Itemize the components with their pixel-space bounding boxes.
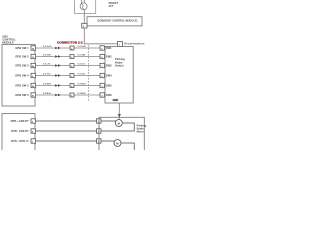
svg-text:SW3: SW3 bbox=[106, 64, 112, 68]
pin 7 (parking brake switch SW3) bbox=[100, 63, 105, 67]
svg-text:EPB SW 6: EPB SW 6 bbox=[15, 93, 29, 97]
BCM (body control module) box bbox=[87, 17, 142, 26]
pin 8 (ABS control module, MTR - EPB RT) bbox=[31, 129, 36, 133]
svg-text:EPB SW 1: EPB SW 1 bbox=[15, 46, 29, 50]
svg-text:SW5: SW5 bbox=[106, 84, 112, 88]
pin 1 (parking brake switch, illumination) bbox=[118, 42, 123, 47]
svg-text:MTR + EPB LT: MTR + EPB LT bbox=[11, 139, 29, 143]
svg-text:0.3 G/B: 0.3 G/B bbox=[43, 55, 51, 57]
in-line connector symbol bbox=[55, 84, 60, 87]
smart junction box bbox=[75, 0, 96, 13]
svg-text:BCM(BODY CONTROL MODULE): BCM(BODY CONTROL MODULE) bbox=[98, 18, 138, 22]
pin (BCM left edge) bbox=[82, 23, 87, 28]
svg-text:MTR + EPB RT: MTR + EPB RT bbox=[11, 119, 30, 123]
pin 4 (parking brake switch SW6) bbox=[100, 93, 105, 97]
arrowhead on ground wire bbox=[118, 114, 121, 117]
svg-text:EPB SW 4: EPB SW 4 bbox=[15, 73, 29, 77]
svg-text:EPB SW 5: EPB SW 5 bbox=[15, 83, 29, 87]
wire MTR + EPB RT: ABS module to parking brake motor bbox=[36, 120, 97, 122]
pin 2 (parking brake motor) bbox=[97, 119, 102, 123]
joint connector box bbox=[70, 46, 74, 50]
wire MTR + EPB LT: ABS module to parking brake motor bbox=[36, 140, 97, 142]
node MTR + EPB LT row bbox=[11, 139, 101, 144]
in-line connector symbol bbox=[55, 64, 60, 67]
svg-text:0.3 Br/O: 0.3 Br/O bbox=[43, 93, 52, 95]
connector 2-2 boundary line (dashed) bbox=[88, 45, 90, 101]
wire EPB SW 1: ABS module to parking brake switch bbox=[36, 47, 101, 49]
svg-text:0.3 W/O: 0.3 W/O bbox=[78, 84, 86, 86]
wire EPB SW 2: ABS module to parking brake switch bbox=[36, 56, 101, 58]
svg-text:MODULE: MODULE bbox=[2, 40, 14, 44]
wire: motor RH feed bbox=[101, 120, 116, 122]
pin 41 (ABS control module, EPB SW 6) bbox=[31, 93, 36, 97]
svg-text:GND: GND bbox=[113, 98, 119, 102]
pin 25 (ABS control module, EPB SW 5) bbox=[31, 83, 36, 87]
in-line connector symbol bbox=[55, 94, 60, 97]
wire EPB SW 5: ABS module to parking brake switch bbox=[36, 85, 101, 87]
pin 5 (parking brake switch SW1) bbox=[100, 46, 105, 50]
svg-text:MTR - EPB RT: MTR - EPB RT bbox=[11, 129, 29, 133]
svg-text:CONNECTOR 2-2: CONNECTOR 2-2 bbox=[57, 40, 83, 44]
node EPB SW 3 row bbox=[15, 63, 112, 68]
node MTR + EPB RT row bbox=[11, 119, 101, 124]
svg-text:Motor: Motor bbox=[137, 130, 144, 134]
joint connector box bbox=[70, 84, 74, 88]
wire EPB SW 4: ABS module to parking brake switch bbox=[36, 75, 101, 77]
pin 3 (ABS control module, MTR + EPB LT) bbox=[31, 139, 36, 143]
joint connector box bbox=[70, 55, 74, 59]
in-line connector symbol bbox=[55, 47, 60, 50]
wire: switch ground to parking brake motor bbox=[118, 103, 120, 120]
pin 9 (ABS control module, EPB SW 4) bbox=[31, 73, 36, 77]
pin 42 (ABS control module, EPB SW 3) bbox=[31, 63, 36, 67]
svg-text:SW4: SW4 bbox=[106, 74, 112, 78]
node EPB SW 6 row bbox=[15, 93, 112, 98]
svg-text:0.3 Y/O: 0.3 Y/O bbox=[78, 74, 86, 76]
pin 4 (parking brake motor) bbox=[97, 129, 102, 133]
joint connector box bbox=[70, 64, 74, 68]
pin 26 (ABS control module, EPB SW 1) bbox=[31, 46, 36, 50]
svg-text:EPB SW 2: EPB SW 2 bbox=[15, 54, 29, 58]
motor M (EPB RH) bbox=[115, 120, 122, 127]
svg-text:0.3 Gr/O: 0.3 Gr/O bbox=[43, 46, 52, 48]
wire: motor LH return loop bbox=[121, 143, 134, 151]
pin 6 (parking brake switch SW2) bbox=[100, 54, 105, 58]
pin 2 (parking brake switch SW4) bbox=[100, 73, 105, 77]
svg-text:0.3 Y/O: 0.3 Y/O bbox=[43, 74, 51, 76]
svg-text:Switch: Switch bbox=[115, 64, 124, 68]
svg-text:0.3 Gr/O: 0.3 Gr/O bbox=[78, 46, 87, 48]
wire EPB SW 6: ABS module to parking brake switch bbox=[36, 94, 101, 96]
wire: fuse output down through smart j/b bbox=[83, 9, 85, 23]
motor M (EPB LH) bbox=[114, 140, 121, 147]
in-line connector symbol bbox=[55, 74, 60, 77]
svg-text:SW6: SW6 bbox=[106, 93, 112, 97]
wire: motor LH feed bbox=[101, 140, 115, 142]
wire: BCM to illumination pin 1 bbox=[84, 28, 117, 44]
pin 4 (ABS control module, MTR + EPB RT) bbox=[31, 119, 36, 123]
node EPB SW 4 row bbox=[15, 73, 112, 78]
svg-text:0.3 Br/O: 0.3 Br/O bbox=[78, 93, 87, 95]
svg-text:JCT: JCT bbox=[109, 4, 114, 8]
svg-text:0.3 W/O: 0.3 W/O bbox=[43, 84, 51, 86]
ABS control module box (switch section) bbox=[2, 45, 35, 107]
node EPB SW 1 row bbox=[15, 46, 112, 51]
svg-text:Illumination: Illumination bbox=[124, 42, 144, 46]
pin 1 (parking brake motor) bbox=[97, 139, 102, 143]
svg-text:0.3 G/B: 0.3 G/B bbox=[78, 55, 86, 57]
parking brake switch box bbox=[105, 47, 133, 104]
ABS control module box (motor section) bbox=[2, 114, 35, 154]
svg-text:0.3 L/O: 0.3 L/O bbox=[78, 64, 86, 66]
pin 3 (parking brake switch SW5) bbox=[100, 83, 105, 87]
wire: motor RH return loop bbox=[101, 123, 134, 131]
svg-text:0.3 L/O: 0.3 L/O bbox=[43, 64, 51, 66]
node MTR - EPB RT row bbox=[11, 129, 101, 134]
fuse (inside smart junction box) bbox=[80, 0, 87, 10]
svg-text:SW2: SW2 bbox=[106, 55, 112, 59]
node EPB SW 2 row bbox=[15, 54, 112, 59]
wire EPB SW 3: ABS module to parking brake switch bbox=[36, 65, 101, 67]
in-line connector symbol bbox=[55, 55, 60, 58]
joint connector box bbox=[70, 74, 74, 78]
joint connector box bbox=[70, 93, 74, 97]
parking brake motor box bbox=[99, 117, 144, 153]
svg-text:EPB SW 3: EPB SW 3 bbox=[15, 63, 29, 67]
pin 10 (ABS control module, EPB SW 2) bbox=[31, 54, 36, 58]
node EPB SW 5 row bbox=[15, 83, 112, 88]
wire MTR - EPB RT: ABS module to parking brake motor bbox=[36, 130, 97, 132]
